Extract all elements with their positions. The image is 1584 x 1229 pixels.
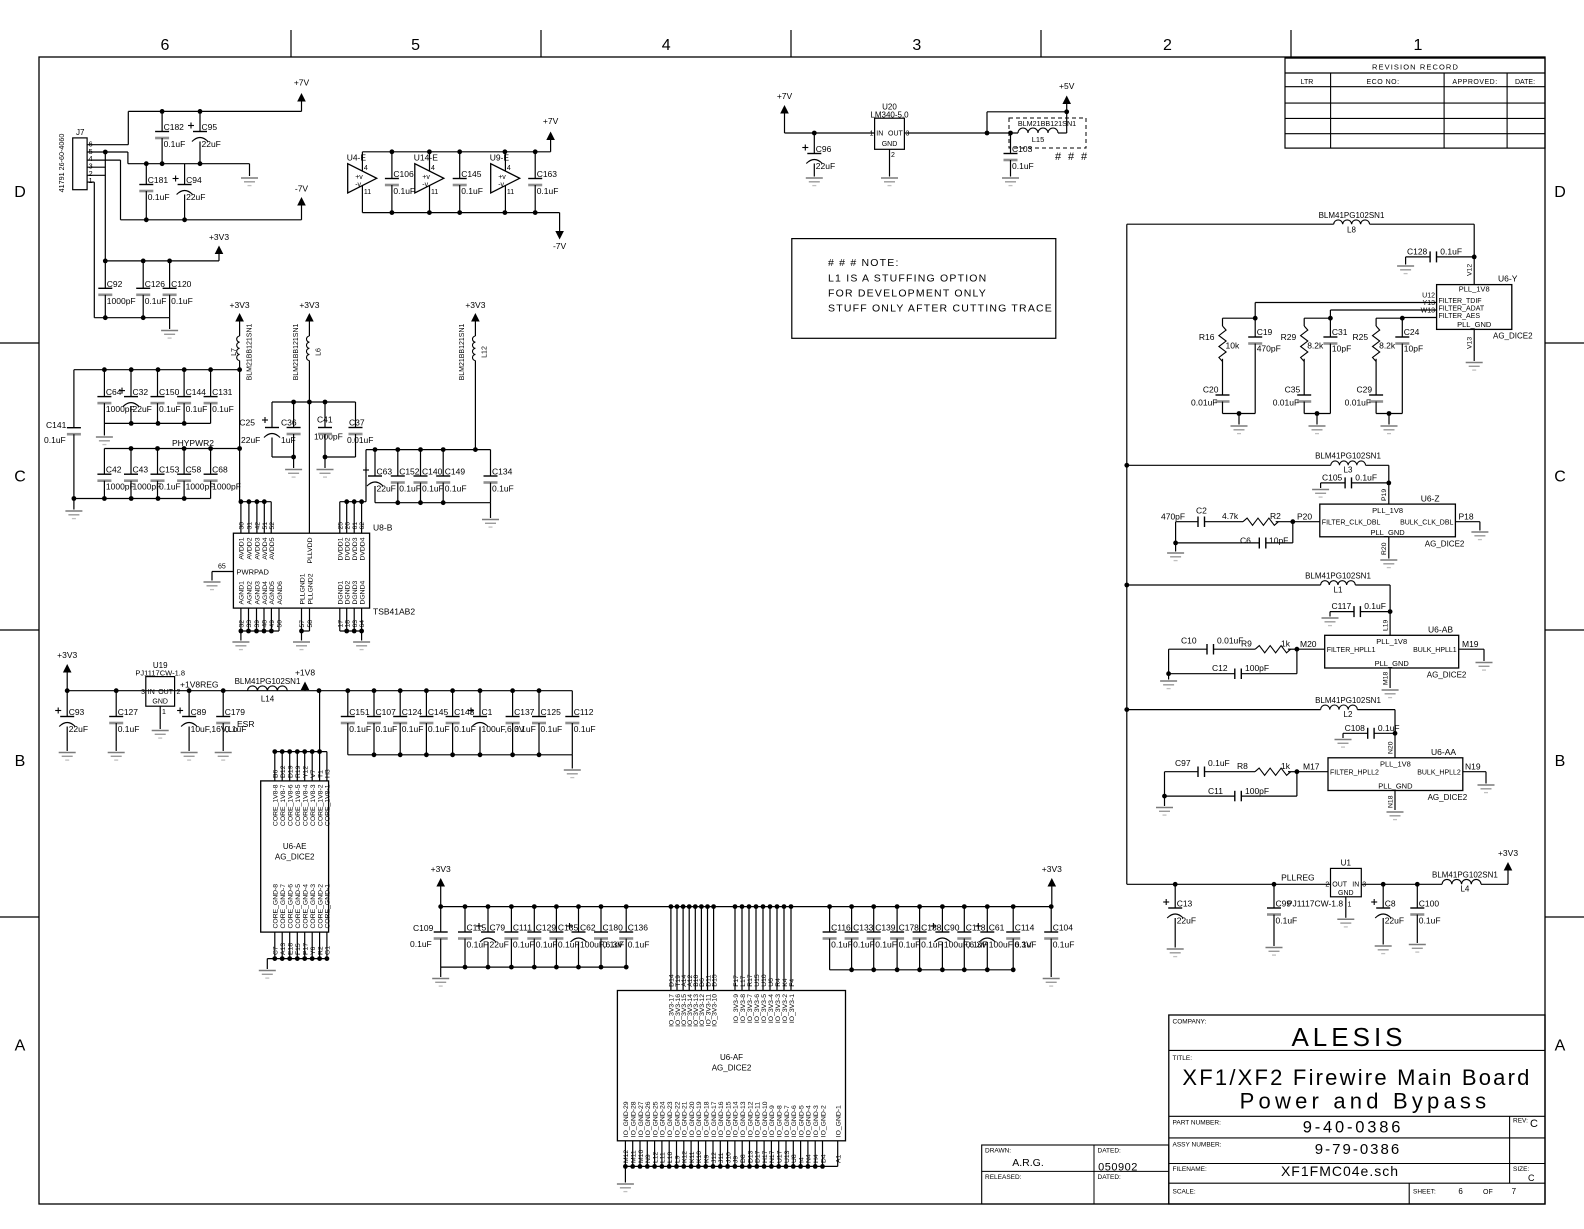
svg-text:C128: C128 bbox=[1407, 246, 1428, 256]
svg-text:U9-E: U9-E bbox=[490, 152, 510, 162]
svg-text:C11: C11 bbox=[1208, 786, 1223, 796]
svg-text:IN: IN bbox=[1352, 882, 1359, 889]
svg-text:U4-E: U4-E bbox=[347, 152, 367, 162]
svg-text:M12: M12 bbox=[623, 1150, 630, 1163]
svg-text:OUT: OUT bbox=[158, 689, 174, 696]
svg-text:32: 32 bbox=[239, 620, 246, 628]
svg-text:C64: C64 bbox=[106, 387, 122, 397]
svg-text:6: 6 bbox=[161, 37, 170, 54]
svg-text:IO_3V3-3: IO_3V3-3 bbox=[775, 994, 782, 1023]
svg-text:0.1uF: 0.1uF bbox=[1208, 758, 1230, 768]
svg-text:0.1uF: 0.1uF bbox=[558, 940, 580, 950]
svg-text:IO_GND-15: IO_GND-15 bbox=[725, 1101, 732, 1137]
svg-text:M18: M18 bbox=[1383, 672, 1390, 685]
svg-text:C124: C124 bbox=[402, 707, 423, 717]
svg-text:64: 64 bbox=[359, 620, 366, 628]
svg-text:PLL_1V8: PLL_1V8 bbox=[1376, 637, 1407, 646]
svg-text:U12: U12 bbox=[1422, 293, 1435, 300]
svg-text:R19: R19 bbox=[295, 765, 302, 778]
svg-text:52: 52 bbox=[269, 522, 276, 530]
svg-text:0.1uF: 0.1uF bbox=[513, 940, 535, 950]
svg-text:42: 42 bbox=[255, 522, 262, 530]
svg-text:22uF: 22uF bbox=[377, 484, 396, 494]
svg-text:0.1uF: 0.1uF bbox=[536, 940, 558, 950]
svg-text:#: # bbox=[1081, 151, 1088, 163]
svg-text:1k: 1k bbox=[1281, 761, 1291, 771]
svg-text:#: # bbox=[1055, 151, 1062, 163]
svg-text:AVDD5: AVDD5 bbox=[269, 537, 276, 559]
svg-text:U8: U8 bbox=[791, 1154, 798, 1163]
svg-text:+1V8REG: +1V8REG bbox=[180, 680, 219, 690]
svg-text:PHYPWR2: PHYPWR2 bbox=[172, 438, 214, 448]
svg-text:+v: +v bbox=[498, 174, 506, 181]
svg-text:3: 3 bbox=[912, 37, 921, 54]
svg-text:22uF: 22uF bbox=[1385, 916, 1404, 926]
svg-text:N9: N9 bbox=[645, 1154, 652, 1163]
svg-text:10pF: 10pF bbox=[1332, 344, 1351, 354]
svg-text:ALESIS: ALESIS bbox=[1291, 1022, 1406, 1052]
svg-text:OF: OF bbox=[1483, 1189, 1493, 1196]
svg-text:C118: C118 bbox=[966, 923, 986, 933]
svg-text:L8: L8 bbox=[1347, 226, 1356, 235]
svg-text:D8: D8 bbox=[740, 1154, 747, 1163]
svg-text:C19: C19 bbox=[1257, 327, 1273, 337]
svg-text:CORE_1V8-6: CORE_1V8-6 bbox=[288, 784, 295, 826]
svg-text:C179: C179 bbox=[225, 707, 246, 717]
svg-text:STUFF ONLY AFTER CUTTING TRACE: STUFF ONLY AFTER CUTTING TRACE bbox=[828, 303, 1053, 315]
svg-text:K12: K12 bbox=[682, 1151, 689, 1163]
svg-text:8.2k: 8.2k bbox=[1307, 341, 1324, 351]
svg-text:C107: C107 bbox=[376, 707, 397, 717]
svg-text:U6-AF: U6-AF bbox=[720, 1053, 743, 1062]
svg-text:IO_GND-25: IO_GND-25 bbox=[652, 1101, 659, 1137]
svg-text:0.01uF: 0.01uF bbox=[1345, 398, 1371, 408]
svg-text:C150: C150 bbox=[159, 387, 180, 397]
svg-text:0.1uF: 0.1uF bbox=[467, 940, 489, 950]
svg-text:M11: M11 bbox=[631, 1150, 638, 1163]
svg-text:C151: C151 bbox=[349, 707, 370, 717]
svg-text:AG_DICE2: AG_DICE2 bbox=[1428, 793, 1468, 802]
svg-text:N17: N17 bbox=[769, 1150, 776, 1163]
svg-text:2: 2 bbox=[891, 152, 895, 159]
svg-text:CORE_1V8-7: CORE_1V8-7 bbox=[280, 784, 287, 826]
svg-text:C137: C137 bbox=[514, 707, 535, 717]
svg-text:D: D bbox=[1554, 184, 1566, 201]
svg-text:0.1uF: 0.1uF bbox=[118, 724, 140, 734]
svg-text:BLM21BB121SN1: BLM21BB121SN1 bbox=[293, 323, 300, 380]
svg-text:AGND2: AGND2 bbox=[246, 581, 253, 605]
svg-text:C63: C63 bbox=[377, 467, 393, 477]
svg-text:C93: C93 bbox=[69, 707, 85, 717]
svg-text:U6: U6 bbox=[768, 978, 775, 987]
svg-text:Y6: Y6 bbox=[310, 946, 317, 955]
svg-text:IO_GND-20: IO_GND-20 bbox=[689, 1101, 696, 1137]
svg-text:9-79-0386: 9-79-0386 bbox=[1315, 1141, 1401, 1158]
svg-text:+3V3: +3V3 bbox=[299, 300, 319, 310]
svg-text:26: 26 bbox=[344, 522, 351, 530]
svg-text:FILTER_ADAT: FILTER_ADAT bbox=[1439, 306, 1485, 313]
svg-text:D: D bbox=[14, 184, 26, 201]
svg-text:0.1uF: 0.1uF bbox=[603, 940, 625, 950]
svg-text:C149: C149 bbox=[445, 467, 466, 477]
svg-text:REVISION RECORD: REVISION RECORD bbox=[1372, 63, 1459, 72]
svg-text:TITLE:: TITLE: bbox=[1173, 1055, 1193, 1062]
svg-text:63: 63 bbox=[352, 620, 359, 628]
svg-text:3: 3 bbox=[141, 689, 145, 696]
svg-text:+v: +v bbox=[422, 174, 430, 181]
svg-text:SIZE:: SIZE: bbox=[1513, 1166, 1529, 1173]
svg-text:0.1uF: 0.1uF bbox=[186, 404, 208, 414]
svg-text:IO_3V3-6: IO_3V3-6 bbox=[754, 994, 761, 1023]
svg-text:C79: C79 bbox=[490, 923, 506, 933]
svg-text:C13: C13 bbox=[1177, 899, 1193, 909]
svg-text:DATE:: DATE: bbox=[1515, 79, 1535, 86]
svg-text:11: 11 bbox=[431, 189, 438, 196]
svg-text:C131: C131 bbox=[212, 387, 233, 397]
svg-text:+v: +v bbox=[355, 174, 363, 181]
svg-text:BLM21BB121SN1: BLM21BB121SN1 bbox=[247, 323, 254, 380]
svg-text:IO_GND-1: IO_GND-1 bbox=[836, 1105, 843, 1137]
svg-text:0.1uF: 0.1uF bbox=[399, 484, 421, 494]
svg-text:CORE_1V8-1: CORE_1V8-1 bbox=[325, 784, 332, 826]
svg-text:2: 2 bbox=[1163, 37, 1172, 54]
svg-text:AGND4: AGND4 bbox=[262, 581, 269, 605]
svg-text:CORE_1V8-5: CORE_1V8-5 bbox=[295, 784, 302, 826]
svg-text:C92: C92 bbox=[107, 279, 123, 289]
svg-text:PLLREG: PLLREG bbox=[1281, 873, 1315, 883]
svg-text:U6-Y: U6-Y bbox=[1498, 274, 1518, 284]
svg-text:C140: C140 bbox=[422, 467, 443, 477]
svg-text:U13: U13 bbox=[784, 1150, 791, 1163]
svg-text:58: 58 bbox=[307, 620, 314, 628]
svg-text:0.01uF: 0.01uF bbox=[1273, 398, 1299, 408]
svg-text:4: 4 bbox=[507, 165, 511, 172]
svg-text:F15: F15 bbox=[295, 943, 302, 955]
svg-text:P19: P19 bbox=[1381, 489, 1388, 501]
svg-text:R2: R2 bbox=[1270, 511, 1281, 521]
svg-text:CORE_GND-6: CORE_GND-6 bbox=[288, 884, 295, 929]
svg-text:IO_GND-27: IO_GND-27 bbox=[638, 1101, 645, 1137]
svg-text:Power and Bypass: Power and Bypass bbox=[1240, 1089, 1491, 1114]
svg-text:OUT: OUT bbox=[888, 131, 904, 138]
svg-text:U1: U1 bbox=[1341, 859, 1352, 868]
svg-text:C139: C139 bbox=[875, 923, 896, 933]
svg-text:IO_3V3-8: IO_3V3-8 bbox=[740, 994, 747, 1023]
svg-text:C37: C37 bbox=[349, 418, 365, 428]
svg-text:BLM41PG102SN1: BLM41PG102SN1 bbox=[1305, 572, 1371, 581]
svg-text:P17: P17 bbox=[303, 943, 310, 955]
svg-text:IO_GND-14: IO_GND-14 bbox=[733, 1101, 740, 1137]
svg-text:0.1uF: 0.1uF bbox=[1012, 161, 1034, 171]
svg-text:22uF: 22uF bbox=[133, 404, 152, 414]
svg-text:D4: D4 bbox=[820, 1154, 827, 1163]
svg-text:PLLGND2: PLLGND2 bbox=[307, 573, 314, 604]
svg-text:PLL_GND: PLL_GND bbox=[1457, 320, 1492, 329]
svg-text:C2: C2 bbox=[1196, 506, 1207, 516]
svg-text:C138: C138 bbox=[921, 923, 942, 933]
svg-text:FILENAME:: FILENAME: bbox=[1173, 1166, 1208, 1173]
svg-text:Y13: Y13 bbox=[1423, 300, 1436, 307]
svg-text:AVDD3: AVDD3 bbox=[255, 537, 262, 559]
svg-text:0.1uF: 0.1uF bbox=[148, 192, 170, 202]
svg-text:11: 11 bbox=[364, 189, 371, 196]
svg-text:+3V3: +3V3 bbox=[465, 300, 485, 310]
svg-text:B: B bbox=[15, 753, 26, 770]
svg-text:D17: D17 bbox=[755, 1150, 762, 1163]
svg-text:J7: J7 bbox=[76, 128, 85, 137]
svg-text:10pF: 10pF bbox=[1269, 536, 1288, 546]
svg-text:PLL_1V8: PLL_1V8 bbox=[1380, 760, 1411, 769]
svg-text:+7V: +7V bbox=[543, 116, 559, 126]
svg-text:0.1uF: 0.1uF bbox=[349, 724, 371, 734]
svg-text:DVDD3: DVDD3 bbox=[352, 537, 359, 560]
svg-text:C145: C145 bbox=[461, 169, 482, 179]
svg-text:DRAWN:: DRAWN: bbox=[985, 1148, 1011, 1155]
svg-text:CORE_1V8-8: CORE_1V8-8 bbox=[273, 784, 280, 826]
svg-text:0.1uF: 0.1uF bbox=[921, 940, 943, 950]
svg-text:0.1uF: 0.1uF bbox=[44, 435, 66, 445]
svg-text:0.01uF: 0.01uF bbox=[347, 435, 373, 445]
svg-text:C: C bbox=[1530, 1118, 1538, 1130]
svg-text:IO_3V3-7: IO_3V3-7 bbox=[747, 994, 754, 1023]
svg-text:C: C bbox=[1528, 1173, 1535, 1183]
svg-text:BLM21BB121SN1: BLM21BB121SN1 bbox=[1018, 119, 1076, 128]
svg-text:L14: L14 bbox=[261, 695, 275, 704]
svg-text:PART NUMBER:: PART NUMBER: bbox=[1173, 1120, 1222, 1127]
svg-text:0.1uF: 0.1uF bbox=[461, 186, 483, 196]
svg-text:PLL_GND: PLL_GND bbox=[1371, 528, 1406, 537]
svg-text:CORE_GND-5: CORE_GND-5 bbox=[295, 884, 302, 929]
svg-text:C153: C153 bbox=[159, 465, 180, 475]
svg-text:C152: C152 bbox=[399, 467, 420, 477]
svg-text:C10: C10 bbox=[1181, 636, 1197, 646]
svg-text:L1 IS A STUFFING OPTION: L1 IS A STUFFING OPTION bbox=[828, 273, 987, 285]
svg-text:0.01uF: 0.01uF bbox=[1191, 398, 1217, 408]
svg-text:+3V3: +3V3 bbox=[1498, 848, 1518, 858]
svg-text:IO_GND-17: IO_GND-17 bbox=[711, 1101, 718, 1137]
svg-text:470pF: 470pF bbox=[1257, 344, 1281, 354]
svg-text:U6-AA: U6-AA bbox=[1431, 747, 1456, 757]
svg-text:PJ1117CW-1.8: PJ1117CW-1.8 bbox=[135, 669, 185, 678]
svg-text:C42: C42 bbox=[106, 465, 122, 475]
svg-text:3: 3 bbox=[906, 131, 910, 138]
svg-text:F17: F17 bbox=[733, 975, 740, 987]
svg-text:L9: L9 bbox=[674, 1155, 681, 1163]
svg-text:C182: C182 bbox=[164, 122, 185, 132]
svg-text:IO_GND-8: IO_GND-8 bbox=[777, 1105, 784, 1137]
svg-text:L2: L2 bbox=[1344, 710, 1353, 719]
svg-text:A.R.G.: A.R.G. bbox=[1012, 1157, 1044, 1169]
svg-text:APPROVED:: APPROVED: bbox=[1452, 79, 1497, 86]
svg-text:C95: C95 bbox=[202, 122, 218, 132]
svg-text:U14-E: U14-E bbox=[414, 152, 438, 162]
svg-text:PLLVDD: PLLVDD bbox=[307, 537, 314, 563]
svg-text:C6: C6 bbox=[1240, 536, 1251, 546]
svg-text:K4: K4 bbox=[782, 978, 789, 987]
svg-text:N20: N20 bbox=[1388, 741, 1395, 754]
svg-text:FOR DEVELOPMENT ONLY: FOR DEVELOPMENT ONLY bbox=[828, 288, 987, 300]
svg-text:1: 1 bbox=[89, 176, 93, 185]
svg-text:9-40-0386: 9-40-0386 bbox=[1303, 1119, 1403, 1137]
svg-text:R20: R20 bbox=[1381, 542, 1388, 555]
svg-text:BLM41PG102SN1: BLM41PG102SN1 bbox=[1319, 211, 1385, 220]
svg-text:ECO NO:: ECO NO: bbox=[1366, 79, 1399, 86]
svg-text:+7V: +7V bbox=[294, 78, 310, 88]
svg-text:PLLGND1: PLLGND1 bbox=[299, 573, 306, 604]
svg-text:7: 7 bbox=[1512, 1187, 1517, 1196]
svg-text:C89: C89 bbox=[191, 707, 207, 717]
svg-text:SHEET:: SHEET: bbox=[1413, 1189, 1436, 1196]
svg-text:-7V: -7V bbox=[295, 184, 309, 194]
svg-text:0.1uF: 0.1uF bbox=[445, 484, 467, 494]
svg-text:11: 11 bbox=[507, 189, 514, 196]
svg-text:T1: T1 bbox=[317, 770, 324, 778]
svg-text:IO_3V3-5: IO_3V3-5 bbox=[761, 994, 768, 1023]
svg-text:J10: J10 bbox=[725, 1152, 732, 1163]
svg-text:2: 2 bbox=[1325, 882, 1329, 889]
svg-text:0.1uF: 0.1uF bbox=[1440, 246, 1462, 256]
svg-text:XF1FMC04e.sch: XF1FMC04e.sch bbox=[1281, 1163, 1399, 1179]
svg-text:-7V: -7V bbox=[553, 241, 567, 251]
svg-text:IO_3V3-9: IO_3V3-9 bbox=[733, 994, 740, 1023]
svg-text:C136: C136 bbox=[628, 923, 649, 933]
svg-text:050902: 050902 bbox=[1098, 1161, 1138, 1173]
svg-text:IO_GND-6: IO_GND-6 bbox=[791, 1105, 798, 1137]
svg-text:BULK_CLK_DBL: BULK_CLK_DBL bbox=[1400, 519, 1453, 526]
svg-text:CORE_GND-1: CORE_GND-1 bbox=[325, 884, 332, 929]
svg-text:0.1uF: 0.1uF bbox=[537, 186, 559, 196]
svg-text:BULK_HPLL1: BULK_HPLL1 bbox=[1413, 647, 1457, 654]
svg-text:0.1uF: 0.1uF bbox=[410, 939, 432, 949]
svg-text:C90: C90 bbox=[944, 923, 960, 933]
svg-text:R29: R29 bbox=[1281, 332, 1297, 342]
svg-text:C111: C111 bbox=[513, 923, 532, 933]
svg-text:1: 1 bbox=[1414, 37, 1423, 54]
svg-text:C100: C100 bbox=[1419, 899, 1440, 909]
svg-text:10pF: 10pF bbox=[1404, 344, 1423, 354]
svg-text:IN: IN bbox=[876, 131, 883, 138]
svg-text:CORE_GND-8: CORE_GND-8 bbox=[273, 884, 280, 929]
svg-text:L19: L19 bbox=[1383, 619, 1390, 631]
svg-text:BLM41PG102SN1: BLM41PG102SN1 bbox=[1315, 452, 1381, 461]
svg-text:R25: R25 bbox=[1353, 332, 1369, 342]
svg-text:IO_GND-4: IO_GND-4 bbox=[806, 1105, 813, 1137]
svg-text:B6: B6 bbox=[273, 769, 280, 778]
svg-text:0.1uF: 0.1uF bbox=[376, 724, 398, 734]
svg-text:C129: C129 bbox=[536, 923, 557, 933]
svg-text:-v: -v bbox=[422, 181, 428, 188]
svg-text:C145: C145 bbox=[428, 707, 449, 717]
svg-text:IO_GND-21: IO_GND-21 bbox=[682, 1101, 689, 1137]
svg-text:IO_GND-22: IO_GND-22 bbox=[674, 1101, 681, 1137]
svg-text:C8: C8 bbox=[1385, 899, 1396, 909]
svg-text:48: 48 bbox=[262, 620, 269, 628]
svg-text:R4: R4 bbox=[775, 978, 782, 987]
svg-text:C97: C97 bbox=[1175, 758, 1191, 768]
svg-text:A: A bbox=[15, 1038, 26, 1055]
svg-text:22uF: 22uF bbox=[186, 192, 205, 202]
svg-text:0.1uF: 0.1uF bbox=[899, 940, 921, 950]
svg-text:PLL_1V8: PLL_1V8 bbox=[1372, 506, 1403, 515]
svg-text:M10: M10 bbox=[638, 1150, 645, 1163]
svg-text:0.1uF: 0.1uF bbox=[402, 724, 424, 734]
svg-text:N18: N18 bbox=[1388, 795, 1395, 808]
svg-text:R8: R8 bbox=[1237, 761, 1248, 771]
svg-text:E18: E18 bbox=[288, 943, 295, 955]
svg-text:DGND2: DGND2 bbox=[345, 580, 352, 604]
svg-text:AG_DICE2: AG_DICE2 bbox=[275, 853, 315, 862]
svg-text:3: 3 bbox=[1362, 882, 1366, 889]
svg-text:CORE_GND-4: CORE_GND-4 bbox=[303, 884, 310, 929]
svg-text:-v: -v bbox=[355, 181, 361, 188]
svg-text:0.1uF: 0.1uF bbox=[225, 724, 247, 734]
svg-text:IO_GND-28: IO_GND-28 bbox=[631, 1101, 638, 1137]
svg-text:0.1uF: 0.1uF bbox=[212, 404, 234, 414]
svg-text:D13: D13 bbox=[747, 1150, 754, 1163]
svg-text:D19: D19 bbox=[288, 765, 295, 778]
svg-text:V13: V13 bbox=[1467, 337, 1474, 349]
svg-text:0.1uF: 0.1uF bbox=[1364, 601, 1386, 611]
svg-text:IO_GND-13: IO_GND-13 bbox=[740, 1101, 747, 1137]
svg-text:4: 4 bbox=[364, 165, 368, 172]
svg-text:IO_GND-10: IO_GND-10 bbox=[762, 1101, 769, 1137]
svg-text:C103: C103 bbox=[1012, 144, 1033, 154]
svg-text:OUT: OUT bbox=[1332, 882, 1348, 889]
svg-text:0.1uF: 0.1uF bbox=[853, 940, 875, 950]
svg-text:62: 62 bbox=[359, 522, 366, 530]
svg-text:IO_GND-12: IO_GND-12 bbox=[747, 1101, 754, 1137]
svg-text:C12: C12 bbox=[1212, 663, 1228, 673]
svg-text:C114: C114 bbox=[1015, 923, 1035, 933]
svg-text:22uF: 22uF bbox=[816, 161, 835, 171]
svg-text:0.1uF: 0.1uF bbox=[159, 404, 181, 414]
svg-text:L4: L4 bbox=[1460, 885, 1469, 894]
svg-text:U6-AB: U6-AB bbox=[1428, 625, 1453, 635]
svg-text:C29: C29 bbox=[1357, 385, 1373, 395]
svg-text:N19: N19 bbox=[1465, 761, 1481, 771]
svg-text:0.1uF: 0.1uF bbox=[875, 940, 897, 950]
svg-text:0.1uF: 0.1uF bbox=[492, 484, 514, 494]
svg-text:+7V: +7V bbox=[777, 91, 793, 101]
svg-text:C105: C105 bbox=[1322, 472, 1343, 482]
svg-text:SCALE:: SCALE: bbox=[1173, 1189, 1196, 1196]
svg-text:C35: C35 bbox=[1285, 385, 1301, 395]
svg-text:+3V3: +3V3 bbox=[1042, 864, 1062, 874]
svg-text:CORE_1V8-2: CORE_1V8-2 bbox=[317, 784, 324, 826]
svg-text:A13: A13 bbox=[280, 943, 287, 955]
svg-text:XF1/XF2 Firewire Main Board: XF1/XF2 Firewire Main Board bbox=[1182, 1065, 1531, 1090]
svg-text:B: B bbox=[1555, 753, 1566, 770]
svg-text:C135: C135 bbox=[558, 923, 579, 933]
svg-text:C141: C141 bbox=[46, 420, 67, 430]
svg-text:L15: L15 bbox=[1032, 135, 1045, 144]
svg-text:IO_GND-18: IO_GND-18 bbox=[704, 1101, 711, 1137]
svg-text:IO_GND-16: IO_GND-16 bbox=[718, 1101, 725, 1137]
svg-text:M17: M17 bbox=[1303, 761, 1320, 771]
svg-text:AG_DICE2: AG_DICE2 bbox=[1425, 540, 1465, 549]
svg-text:0.1uF: 0.1uF bbox=[393, 186, 415, 196]
svg-text:0.1uF: 0.1uF bbox=[159, 482, 181, 492]
svg-text:L12: L12 bbox=[652, 1151, 659, 1163]
svg-text:AVDD1: AVDD1 bbox=[239, 537, 246, 559]
svg-text:22uF: 22uF bbox=[1177, 916, 1196, 926]
svg-text:H17: H17 bbox=[762, 1150, 769, 1163]
svg-text:C58: C58 bbox=[186, 465, 202, 475]
svg-text:C96: C96 bbox=[816, 144, 832, 154]
svg-text:ASSY NUMBER:: ASSY NUMBER: bbox=[1173, 1142, 1222, 1149]
svg-text:2: 2 bbox=[177, 689, 181, 696]
svg-text:REV:: REV: bbox=[1513, 1118, 1528, 1125]
